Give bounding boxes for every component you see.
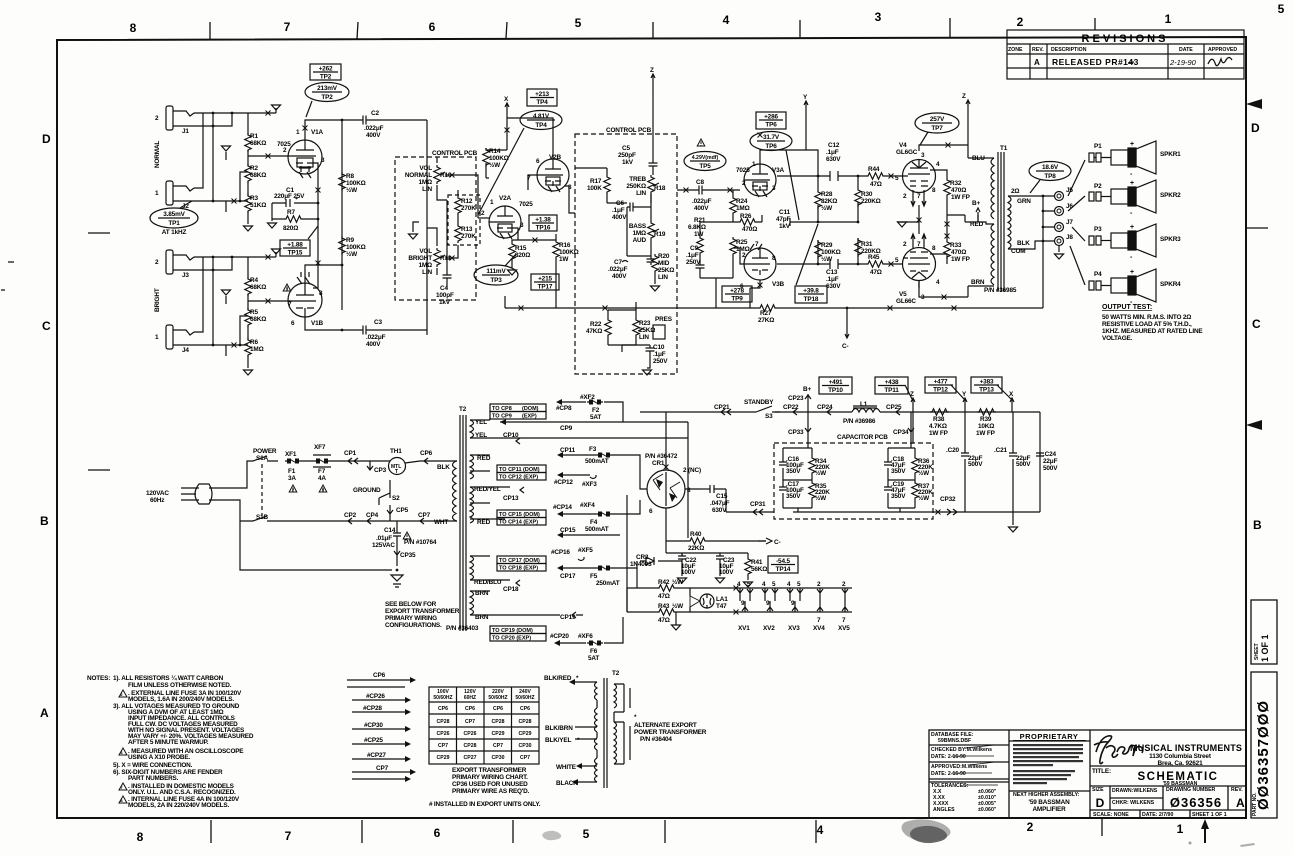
output jacks J5-J8 — [1026, 196, 1054, 308]
wire — [640, 478, 700, 519]
wire — [896, 409, 900, 415]
wire — [750, 244, 762, 250]
bias network — [640, 519, 766, 580]
svg-text:TP2: TP2 — [321, 94, 333, 101]
wire — [565, 186, 575, 213]
svg-text:B+: B+ — [803, 386, 811, 393]
resistor R44 — [866, 173, 885, 179]
svg-text:T: T — [395, 469, 398, 475]
svg-text:D: D — [42, 132, 51, 146]
svg-text:6.8KΩ: 6.8KΩ — [688, 224, 706, 231]
wire — [563, 474, 590, 476]
svg-text:3: 3 — [321, 157, 325, 164]
svg-text:R30: R30 — [861, 191, 873, 198]
svg-text:TP4: TP4 — [535, 122, 547, 129]
svg-text:+1.38: +1.38 — [535, 217, 551, 224]
svg-text:R20: R20 — [658, 253, 670, 260]
wire — [548, 186, 560, 192]
wire — [933, 509, 1040, 515]
svg-text:XF1: XF1 — [285, 451, 297, 458]
svg-text:100K: 100K — [587, 185, 602, 192]
wire — [653, 472, 680, 506]
svg-text:VOLTAGE.: VOLTAGE. — [1102, 335, 1133, 342]
output jack — [1055, 223, 1064, 232]
TP9 TP18 boxes — [722, 286, 752, 302]
svg-text:5). X = WIRE CONNECTION.: 5). X = WIRE CONNECTION. — [113, 762, 193, 769]
svg-text:#XF6: #XF6 — [578, 633, 593, 640]
svg-text:C9: C9 — [690, 245, 698, 252]
svg-text:DATE: 2/7/90: DATE: 2/7/90 — [1142, 812, 1173, 818]
svg-text:TO CP18 (EXP): TO CP18 (EXP) — [499, 566, 538, 572]
svg-text:BLU: BLU — [972, 155, 985, 162]
TP8 — [1029, 162, 1071, 181]
ground — [651, 286, 660, 291]
svg-text:6: 6 — [649, 508, 653, 515]
svg-text:TP14: TP14 — [776, 566, 791, 573]
svg-text:.1μF: .1μF — [653, 351, 666, 358]
svg-text:TP2: TP2 — [320, 74, 332, 81]
resistor R16 — [553, 240, 559, 259]
svg-text:½W: ½W — [672, 578, 684, 586]
bottom border zone ticks — [211, 818, 1102, 843]
svg-text:DRAWING NUMBER: DRAWING NUMBER — [1166, 787, 1216, 793]
svg-text:REVISIONS: REVISIONS — [1082, 33, 1169, 45]
svg-text:8: 8 — [137, 830, 144, 844]
svg-text:47pF: 47pF — [776, 216, 791, 223]
svg-text:8: 8 — [130, 21, 137, 35]
svg-text:4A: 4A — [318, 475, 326, 482]
svg-text:EXPORT TRANSFORMER: EXPORT TRANSFORMER — [385, 608, 460, 615]
svg-text:.01μF: .01μF — [376, 535, 392, 542]
fuse — [587, 400, 603, 405]
svg-text:C11: C11 — [779, 209, 791, 216]
svg-text:REV.: REV. — [1231, 787, 1243, 793]
svg-text:C5: C5 — [622, 145, 630, 152]
svg-text:SCALE: NONE: SCALE: NONE — [1093, 812, 1129, 818]
svg-text:# INSTALLED IN EXPORT UNITS ON: # INSTALLED IN EXPORT UNITS ONLY. — [429, 801, 541, 808]
svg-text:.1μF: .1μF — [826, 276, 839, 283]
V2A — [489, 206, 521, 238]
svg-text:BRN: BRN — [475, 614, 489, 621]
wire — [963, 398, 967, 412]
ground — [672, 625, 681, 630]
R18 TREB pot — [648, 175, 654, 194]
V4 plate to T1 — [919, 145, 968, 158]
svg-text:5: 5 — [895, 175, 899, 182]
svg-text:+383: +383 — [980, 379, 994, 386]
TP boxes — [819, 377, 852, 394]
wire — [922, 122, 952, 124]
TP14 — [768, 556, 798, 573]
wire — [652, 95, 654, 160]
wire — [827, 409, 831, 415]
svg-text:R18: R18 — [654, 185, 666, 192]
svg-text:±0.060": ±0.060" — [978, 807, 997, 813]
svg-text:2: 2 — [903, 193, 907, 200]
svg-text:2Ω: 2Ω — [1011, 188, 1019, 195]
resistor R7 — [284, 216, 303, 222]
svg-text:P3: P3 — [1094, 226, 1102, 233]
svg-text:500V: 500V — [1016, 461, 1031, 468]
resistor R29 — [815, 240, 821, 259]
svg-text:LIN: LIN — [422, 269, 432, 276]
svg-text:R12: R12 — [461, 198, 473, 205]
svg-text:C3: C3 — [374, 319, 382, 326]
svg-text:R25: R25 — [736, 239, 748, 246]
svg-text:50 WATTS MIN. R.M.S. INTO 2Ω: 50 WATTS MIN. R.M.S. INTO 2Ω — [1102, 314, 1191, 321]
TP1 bubble — [150, 201, 198, 228]
heater circuit — [627, 568, 852, 612]
svg-text:XV4: XV4 — [813, 625, 825, 632]
svg-text:Brea, Ca. 92621: Brea, Ca. 92621 — [1157, 760, 1203, 767]
wire — [590, 475, 596, 479]
svg-text:8: 8 — [687, 487, 691, 494]
svg-text:PRIMARY WIRE AS REQ'D.: PRIMARY WIRE AS REQ'D. — [452, 788, 530, 795]
svg-text:P/N #36472: P/N #36472 — [645, 453, 678, 460]
svg-text:R43: R43 — [658, 603, 670, 610]
wire — [1251, 600, 1277, 818]
svg-text:CP30: CP30 — [519, 743, 532, 749]
svg-text:TP4: TP4 — [536, 99, 548, 106]
svg-text:SHEET 1 OF 1: SHEET 1 OF 1 — [1192, 812, 1227, 818]
svg-text:T2: T2 — [612, 670, 620, 677]
capacitor C2 — [360, 116, 369, 125]
wire — [757, 140, 785, 142]
resistor R11 — [434, 248, 440, 267]
wire — [897, 221, 919, 223]
svg-text:#CP26: #CP26 — [366, 693, 385, 700]
svg-text:TP15: TP15 — [288, 250, 303, 257]
wire — [966, 100, 970, 145]
svg-text:1W FP: 1W FP — [951, 256, 971, 263]
ground — [409, 234, 418, 239]
svg-text:D: D — [1251, 121, 1260, 135]
svg-text:SPKR3: SPKR3 — [1160, 236, 1181, 243]
svg-text:R31: R31 — [861, 241, 873, 248]
plug — [181, 461, 392, 570]
svg-text:P/N #36404: P/N #36404 — [640, 736, 672, 743]
svg-text:R19: R19 — [654, 231, 666, 238]
wire — [527, 119, 555, 121]
R38 R39 in series — [930, 409, 949, 415]
svg-text:V1B: V1B — [311, 320, 324, 327]
wire — [725, 293, 749, 295]
svg-text:1W FP: 1W FP — [951, 194, 971, 201]
svg-text:CP29: CP29 — [437, 755, 450, 761]
plate wire up to bus — [305, 120, 427, 335]
svg-text:RELEASED PR#143: RELEASED PR#143 — [1052, 57, 1139, 67]
svg-text:8: 8 — [772, 255, 776, 262]
warning triangle note — [403, 532, 411, 539]
resistor R33 — [944, 240, 950, 259]
svg-text:#CP8: #CP8 — [556, 405, 572, 412]
svg-text:2: 2 — [842, 581, 846, 588]
svg-text:7025: 7025 — [736, 167, 750, 174]
col1 text — [931, 732, 997, 813]
svg-text:400V: 400V — [612, 214, 627, 221]
svg-text:V1A: V1A — [311, 129, 324, 136]
V1B triode — [288, 283, 322, 317]
svg-text:BLK/RED: BLK/RED — [544, 675, 572, 682]
svg-text:R3: R3 — [250, 195, 258, 202]
resistor R31 — [855, 238, 861, 257]
svg-text:APPROVED:M.Wilkens: APPROVED:M.Wilkens — [931, 764, 987, 770]
wire — [453, 415, 561, 631]
svg-text:2: 2 — [1027, 820, 1034, 834]
svg-text:#CP16: #CP16 — [551, 549, 570, 556]
svg-text:1W: 1W — [559, 256, 569, 263]
table — [429, 687, 539, 764]
svg-text:R32: R32 — [950, 180, 962, 187]
svg-text:3.85mV: 3.85mV — [163, 211, 185, 218]
wire — [420, 458, 457, 464]
wire — [391, 575, 403, 587]
wire — [756, 406, 780, 412]
svg-text:CP28: CP28 — [492, 719, 505, 725]
wire — [457, 190, 459, 252]
svg-text:5: 5 — [1278, 2, 1285, 16]
wire — [119, 690, 127, 803]
svg-text:470Ω: 470Ω — [951, 187, 966, 194]
wire — [974, 384, 999, 386]
svg-text:8: 8 — [319, 290, 323, 297]
wire — [283, 247, 307, 249]
resistor R6 — [245, 338, 251, 357]
svg-text:5: 5 — [772, 581, 776, 588]
TP15 box — [280, 240, 310, 256]
svg-text:1). ALL RESISTORS ¼ WATT CARBO: 1). ALL RESISTORS ¼ WATT CARBON — [113, 674, 224, 682]
svg-text:100V: 100V — [681, 569, 696, 576]
svg-text:CP26: CP26 — [437, 731, 450, 737]
svg-text:.022μF: .022μF — [692, 198, 712, 205]
svg-text:R27: R27 — [760, 310, 772, 317]
svg-text:V5: V5 — [899, 291, 907, 298]
svg-text:R6: R6 — [250, 339, 258, 346]
svg-text:2: 2 — [817, 581, 821, 588]
svg-text:350V: 350V — [891, 493, 906, 500]
wire — [755, 191, 767, 197]
wire — [489, 206, 518, 240]
svg-text:7: 7 — [755, 241, 759, 248]
svg-text:CP6: CP6 — [438, 706, 448, 712]
wire — [500, 233, 512, 239]
svg-text:TP11: TP11 — [884, 387, 899, 394]
wire — [733, 248, 744, 264]
wire — [742, 509, 774, 515]
svg-text:400V: 400V — [366, 341, 381, 348]
svg-text:100KΩ: 100KΩ — [346, 244, 366, 251]
svg-text:TP1: TP1 — [168, 220, 180, 227]
svg-text:F2: F2 — [592, 407, 600, 414]
svg-text:LA1: LA1 — [716, 596, 728, 603]
wire — [306, 101, 312, 117]
BRIGHT jacks J3 J4 — [166, 250, 213, 349]
svg-text:4: 4 — [787, 581, 791, 588]
svg-text:P/N #10764: P/N #10764 — [404, 539, 437, 546]
svg-text:(DOM): (DOM) — [522, 406, 539, 412]
svg-text:B: B — [40, 514, 49, 528]
svg-text:RED: RED — [477, 455, 491, 462]
svg-text:½W: ½W — [672, 602, 684, 610]
svg-text:+215: +215 — [538, 276, 552, 283]
wire — [253, 516, 278, 521]
wire — [622, 261, 628, 263]
svg-text:USING A X10 PROBE.: USING A X10 PROBE. — [128, 754, 190, 761]
wire — [1036, 170, 1064, 172]
svg-text:C10: C10 — [653, 344, 665, 351]
resistor — [912, 456, 918, 475]
svg-text:1W FP: 1W FP — [929, 430, 949, 437]
TP2 — [310, 64, 341, 80]
svg-text:51KΩ: 51KΩ — [250, 202, 266, 209]
svg-text:L1: L1 — [860, 401, 868, 408]
ground — [678, 578, 687, 583]
svg-text:CP33: CP33 — [788, 429, 804, 436]
secondary coils right — [470, 420, 474, 438]
fuse — [285, 459, 301, 464]
svg-text:7: 7 — [917, 241, 921, 248]
svg-text:B+: B+ — [972, 200, 980, 207]
svg-text:7: 7 — [817, 617, 821, 624]
svg-text:RED: RED — [970, 221, 984, 228]
svg-text:TO CP15 (DOM): TO CP15 (DOM) — [499, 512, 540, 518]
svg-text:TP7: TP7 — [931, 125, 943, 132]
svg-text:R14: R14 — [489, 148, 501, 155]
P1 — [1068, 160, 1085, 196]
V1A triode — [288, 140, 322, 174]
top border zone ticks — [210, 18, 1095, 39]
svg-text:8: 8 — [932, 245, 936, 252]
wire — [562, 402, 623, 422]
primary coil left — [453, 461, 457, 521]
svg-text:B: B — [1253, 518, 1262, 532]
svg-text:7: 7 — [284, 20, 291, 34]
svg-text:50/60HZ: 50/60HZ — [433, 695, 452, 701]
svg-text:5AT: 5AT — [590, 414, 601, 421]
svg-text:100KΩ: 100KΩ — [821, 249, 841, 256]
svg-text:CP21: CP21 — [714, 404, 730, 411]
svg-text:TP12: TP12 — [933, 387, 948, 394]
V1B plate to bus bottom — [305, 265, 427, 330]
wires pcb1 — [413, 175, 489, 262]
svg-text:120VAC: 120VAC — [146, 490, 169, 497]
svg-text:½W: ½W — [821, 255, 833, 263]
wire — [732, 190, 734, 222]
svg-text:47Ω: 47Ω — [658, 593, 670, 600]
wire — [700, 262, 733, 308]
svg-text:½W: ½W — [918, 469, 930, 477]
svg-text:R23: R23 — [639, 320, 651, 327]
wire — [903, 160, 936, 206]
svg-text:9: 9 — [791, 600, 795, 607]
svg-text:V3A: V3A — [772, 167, 785, 174]
wire — [313, 71, 338, 73]
resistor R12 — [455, 196, 461, 215]
svg-text:#XF3: #XF3 — [582, 481, 597, 488]
svg-text:DRAWN:WILKENS: DRAWN:WILKENS — [1112, 788, 1158, 794]
svg-text:P/N #36986: P/N #36986 — [843, 418, 876, 425]
svg-text:-54.5: -54.5 — [776, 558, 790, 565]
svg-text:P/N #36985: P/N #36985 — [984, 287, 1017, 294]
svg-text:CP29: CP29 — [519, 731, 532, 737]
svg-text:820Ω: 820Ω — [283, 225, 298, 232]
svg-text:R42: R42 — [658, 579, 670, 586]
V5 tube — [903, 248, 936, 281]
svg-text:S2: S2 — [392, 495, 400, 502]
wire — [654, 273, 656, 284]
zone letters right — [1251, 121, 1262, 532]
wire — [253, 456, 278, 461]
resistor R43 — [657, 609, 676, 615]
svg-text:630V: 630V — [712, 507, 727, 514]
col3 fender logo — [1094, 736, 1143, 764]
resistor R26 — [738, 219, 757, 225]
svg-text:ANGLES: ANGLES — [933, 807, 955, 813]
wire — [261, 464, 263, 516]
resistor — [745, 557, 751, 576]
fuse — [587, 641, 603, 646]
svg-text:RESISTIVE LOAD AT 5% T.H.D.,: RESISTIVE LOAD AT 5% T.H.D., — [1102, 321, 1192, 328]
wire — [928, 384, 953, 386]
svg-text:BASS: BASS — [629, 223, 647, 230]
resistor R2 — [245, 164, 251, 183]
svg-text:BRIGHT: BRIGHT — [408, 255, 432, 262]
svg-text:CONTROL PCB: CONTROL PCB — [432, 150, 478, 157]
resistor R3 — [245, 194, 251, 213]
svg-text:A: A — [1236, 796, 1245, 810]
svg-text:BLK: BLK — [1017, 240, 1030, 247]
wire — [822, 385, 849, 387]
R17 — [604, 175, 610, 194]
wire — [507, 118, 553, 190]
wire — [608, 302, 636, 352]
svg-text:XF7: XF7 — [314, 444, 326, 451]
svg-text:6: 6 — [434, 826, 441, 840]
C15 CP31 left — [700, 485, 726, 493]
svg-text:+491: +491 — [829, 379, 843, 386]
R8 R9 — [339, 172, 345, 191]
wire — [793, 409, 797, 415]
svg-text:+262: +262 — [319, 66, 333, 73]
V3 plate wiring / C12 C13 column — [760, 150, 903, 285]
svg-text:J7: J7 — [1066, 219, 1073, 226]
svg-text:5: 5 — [797, 581, 801, 588]
alternate export transformer T2 — [575, 678, 630, 788]
wire — [622, 345, 650, 368]
svg-text:2: 2 — [742, 252, 746, 259]
wire — [758, 538, 772, 544]
ground — [643, 370, 652, 375]
svg-text:V2B: V2B — [549, 154, 562, 161]
svg-text:+: + — [1130, 269, 1134, 276]
svg-text:DESCRIPTION: DESCRIPTION — [1051, 47, 1087, 53]
svg-text:18.6V: 18.6V — [1042, 164, 1059, 171]
wire — [563, 561, 637, 568]
svg-text:C15: C15 — [716, 493, 728, 500]
svg-text:NORMAL: NORMAL — [405, 172, 432, 179]
svg-text:7: 7 — [288, 301, 292, 308]
wire — [530, 97, 554, 99]
svg-text:TP18: TP18 — [804, 296, 819, 303]
svg-text:½W: ½W — [346, 250, 358, 258]
svg-text:TP16: TP16 — [536, 225, 551, 232]
resistor R45 — [866, 261, 885, 267]
svg-text:TP13: TP13 — [979, 387, 994, 394]
svg-text:400V: 400V — [694, 205, 709, 212]
svg-text:1MΩ: 1MΩ — [632, 230, 646, 237]
svg-text:C-: C- — [774, 539, 780, 546]
svg-text:½W: ½W — [489, 161, 501, 169]
